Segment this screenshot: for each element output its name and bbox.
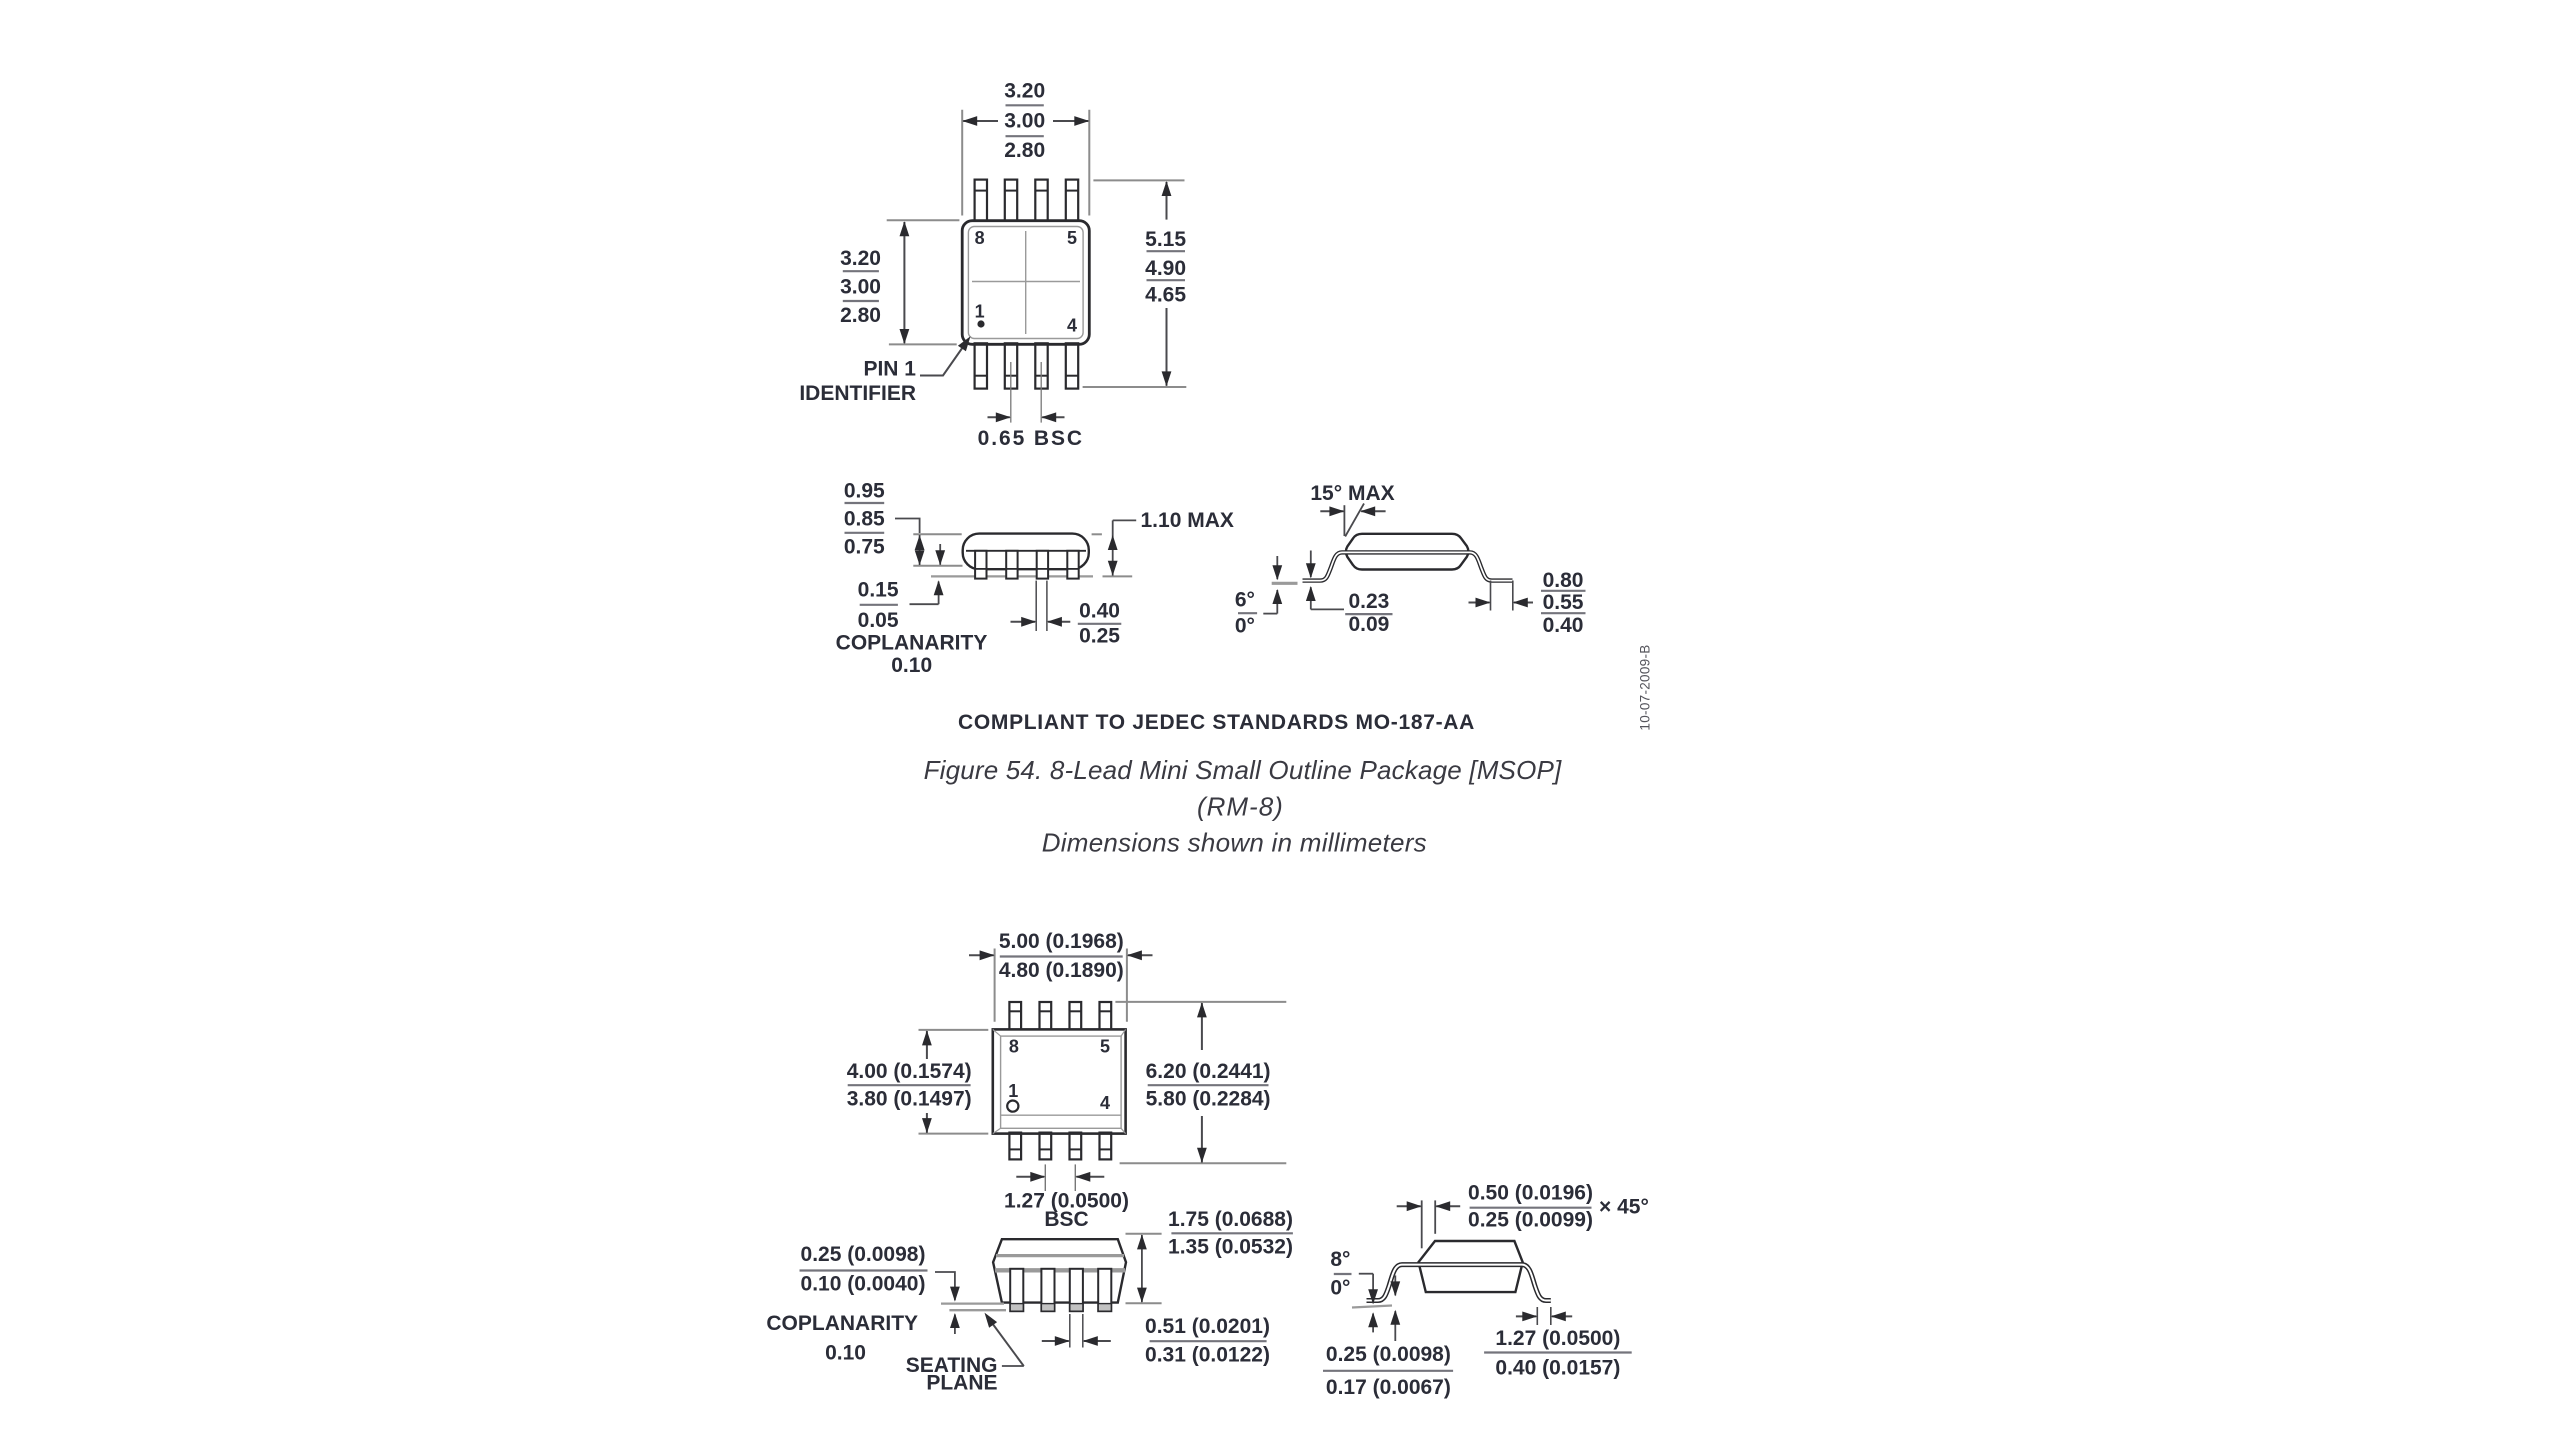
svg-text:0.15: 0.15 [858, 579, 899, 602]
svg-text:0.09: 0.09 [1348, 613, 1389, 636]
svg-text:3.20: 3.20 [840, 247, 881, 270]
svg-text:COPLANARITY: COPLANARITY [836, 631, 988, 654]
svg-text:PIN 1: PIN 1 [863, 357, 916, 380]
svg-text:0.95: 0.95 [844, 480, 885, 503]
svg-text:1: 1 [1008, 1081, 1018, 1101]
svg-text:2.80: 2.80 [840, 304, 881, 327]
svg-text:5: 5 [1067, 228, 1077, 248]
svg-text:3.00: 3.00 [840, 276, 881, 299]
svg-text:0.51 (0.0201): 0.51 (0.0201) [1145, 1315, 1270, 1338]
svg-text:1.27 (0.0500): 1.27 (0.0500) [1495, 1327, 1620, 1350]
svg-text:0.25: 0.25 [1079, 625, 1120, 648]
svg-text:IDENTIFIER: IDENTIFIER [799, 382, 916, 405]
svg-text:Dimensions shown in millimeter: Dimensions shown in millimeters [1042, 828, 1427, 858]
svg-text:0.50 (0.0196): 0.50 (0.0196) [1468, 1182, 1593, 1205]
svg-text:8: 8 [975, 228, 985, 248]
svg-text:0°: 0° [1235, 615, 1255, 638]
svg-text:0.23: 0.23 [1348, 590, 1389, 613]
svg-text:0.17 (0.0067): 0.17 (0.0067) [1326, 1376, 1451, 1399]
svg-text:1.10 MAX: 1.10 MAX [1141, 509, 1234, 532]
svg-text:6°: 6° [1235, 588, 1255, 611]
svg-text:1.75 (0.0688): 1.75 (0.0688) [1168, 1208, 1293, 1231]
svg-text:0.25 (0.0098): 0.25 (0.0098) [801, 1243, 926, 1266]
svg-text:BSC: BSC [1044, 1208, 1088, 1231]
svg-text:8: 8 [1009, 1037, 1019, 1057]
svg-text:COPLANARITY: COPLANARITY [766, 1312, 918, 1335]
svg-text:0.25 (0.0099): 0.25 (0.0099) [1468, 1209, 1593, 1232]
svg-text:× 45°: × 45° [1599, 1196, 1649, 1219]
svg-text:PLANE: PLANE [926, 1372, 997, 1395]
svg-text:5.15: 5.15 [1145, 228, 1186, 251]
svg-text:0.05: 0.05 [858, 609, 899, 632]
svg-text:0.40: 0.40 [1079, 600, 1120, 623]
svg-text:5.80 (0.2284): 5.80 (0.2284) [1146, 1087, 1271, 1110]
svg-text:0.55: 0.55 [1543, 591, 1584, 614]
svg-text:4.90: 4.90 [1145, 257, 1186, 280]
svg-text:(RM-8): (RM-8) [1197, 792, 1284, 822]
svg-text:0.65 BSC: 0.65 BSC [978, 427, 1084, 450]
svg-text:2.80: 2.80 [1004, 139, 1045, 162]
svg-text:5.00 (0.1968): 5.00 (0.1968) [999, 930, 1124, 953]
svg-text:Figure 54. 8-Lead Mini Small O: Figure 54. 8-Lead Mini Small Outline Pac… [924, 755, 1562, 785]
svg-text:8°: 8° [1330, 1248, 1350, 1271]
svg-text:10-07-2009-B: 10-07-2009-B [1638, 644, 1653, 730]
svg-text:0.31 (0.0122): 0.31 (0.0122) [1145, 1344, 1270, 1367]
svg-text:0.10 (0.0040): 0.10 (0.0040) [801, 1273, 926, 1296]
svg-text:3.00: 3.00 [1004, 109, 1045, 132]
svg-text:0°: 0° [1330, 1276, 1350, 1299]
svg-text:0.10: 0.10 [825, 1342, 866, 1365]
svg-text:3.80 (0.1497): 3.80 (0.1497) [847, 1087, 972, 1110]
svg-text:5: 5 [1100, 1037, 1110, 1057]
svg-text:4: 4 [1100, 1093, 1110, 1113]
svg-text:0.75: 0.75 [844, 536, 885, 559]
svg-text:COMPLIANT TO JEDEC STANDARDS M: COMPLIANT TO JEDEC STANDARDS MO-187-AA [958, 711, 1475, 734]
svg-text:6.20 (0.2441): 6.20 (0.2441) [1146, 1060, 1271, 1083]
svg-text:4.65: 4.65 [1145, 283, 1186, 306]
svg-text:4: 4 [1067, 316, 1077, 336]
svg-text:4.00 (0.1574): 4.00 (0.1574) [847, 1060, 972, 1083]
svg-text:1.35 (0.0532): 1.35 (0.0532) [1168, 1235, 1293, 1258]
svg-text:0.10: 0.10 [891, 654, 932, 677]
svg-text:1: 1 [975, 302, 985, 322]
svg-text:4.80 (0.1890): 4.80 (0.1890) [999, 959, 1124, 982]
svg-text:3.20: 3.20 [1004, 80, 1045, 103]
svg-text:0.40: 0.40 [1543, 614, 1584, 637]
svg-text:0.40 (0.0157): 0.40 (0.0157) [1495, 1357, 1620, 1380]
svg-text:15° MAX: 15° MAX [1310, 482, 1394, 505]
svg-text:0.80: 0.80 [1543, 569, 1584, 592]
svg-text:0.25 (0.0098): 0.25 (0.0098) [1326, 1343, 1451, 1366]
svg-text:0.85: 0.85 [844, 508, 885, 531]
